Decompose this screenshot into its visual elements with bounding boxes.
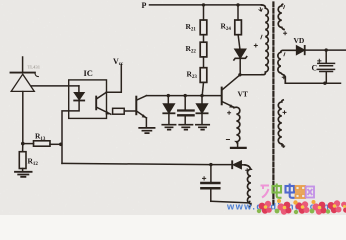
svg-text:VD: VD [294,36,305,45]
resistor R13 left lead [23,143,34,145]
W3 polarity mark - [226,139,229,141]
watermark char 2 (dian) [273,184,282,198]
watermark char 5 (wang) [306,187,314,198]
transistor V1 collector [137,96,147,100]
svg-text:C: C [312,64,318,73]
junction VT collector [238,73,241,76]
transformer core dashed line [272,3,274,207]
transistor V1 base bar [135,97,137,115]
ground (C1) [179,125,192,130]
regulator VR TL431 cathode bar [11,72,35,74]
junction C2 top [209,163,212,166]
junction P/R21 [202,3,205,6]
ground (R12) [15,172,32,177]
resistor R22 body [200,42,207,57]
W3 termination bar [231,147,246,149]
op-to IC optocoupler box [69,80,107,119]
wire collector to Vcc [106,65,121,93]
diode VD2 triangle [234,161,242,168]
diode VD2 cathode bar [231,161,233,168]
regulator VR TL431 reference hook [35,73,38,76]
resistor R21 body [200,20,207,35]
resistor (base drive) body [113,108,125,114]
C2 polarity mark + [203,177,206,180]
wire bottom feedback rail [62,163,232,164]
capacitor C1 upper lead [184,96,186,110]
junction TL431/R13/R12 [21,142,25,146]
wire primary bottom to collector node [240,74,262,76]
transistor V1 emitter [137,111,147,118]
W2c polarity mark + [283,111,286,114]
watermark flower 5 [326,200,342,213]
optocoupler phototransistor collector [96,92,106,99]
optocoupler phototransistor emitter [96,107,110,114]
zener diode VZ triangle [235,49,246,58]
optocoupler LED triangle [75,93,84,100]
diode D1 lower lead [168,113,170,124]
VT emitter arrowhead [229,104,233,108]
winding W4 (aux base winding) [245,165,251,207]
resistor R12 upper lead [22,144,24,152]
junction C1 [184,94,187,97]
capacitor C1 lower lead [184,116,186,124]
optocoupler phototransistor base bar [95,97,97,110]
svg-text:VT: VT [238,90,248,99]
V1 emitter arrowhead [142,114,146,118]
wire R22 to R23 [203,57,205,68]
resistor R24 body [235,20,242,35]
resistor R13 body [34,141,51,146]
resistor R12 lower lead [22,169,24,172]
regulator VR anode lead wire [22,92,24,144]
ground (V1 emitter) [139,128,154,133]
capacitor C upper lead [325,50,327,62]
diode D2 lower lead [201,113,203,124]
svg-text:TL431: TL431 [28,65,41,70]
diode D1 lead [167,96,169,104]
W3 polarity mark + [228,111,231,114]
W2b mark l [284,53,285,56]
transformer T1 primary winding W1 [262,5,269,75]
resistor R23 body [200,68,207,83]
diode D2 triangle [197,104,208,113]
regulator VR TL431 triangle [11,74,34,91]
resistor R24 lead [237,5,239,20]
wire zener to collector node [239,58,241,75]
wire R23 to node [202,82,203,95]
capacitor C1 plates [178,111,193,116]
transistor VT emitter [222,102,235,108]
watermark char 4 (qi) [295,186,306,198]
ground (D2) [196,125,209,130]
diode D1 triangle [164,104,175,113]
W3 termination lead [237,142,239,146]
wire V1 emitter to ground [145,118,147,127]
wire output bottom rail [285,82,340,84]
wire VD to output [306,49,346,51]
transformer secondary winding W2b [278,50,297,83]
watermark flower 1 [257,201,272,214]
junction P/R24 [236,3,239,6]
transformer secondary winding W2a [278,4,284,29]
diode VD triangle [297,46,305,54]
wire C2 bottom to W4 bottom [211,201,250,203]
wire R24 to zener [238,35,240,49]
W1 mark l [261,35,262,39]
node P top rail wire [150,4,262,6]
resistor R12 body [19,152,26,169]
diode VD cathode bar [304,46,306,54]
diode D1 cathode bar [163,112,174,114]
wire resistor to V1 base [124,110,135,112]
svg-text:IC: IC [84,68,93,78]
capacitor C2 lower lead [210,190,212,202]
transistor VT base bar [221,88,223,105]
svg-text:P: P [142,1,147,10]
junction node dots [21,3,328,166]
wire R21 to R22 [203,35,205,43]
emitter arrowhead [105,111,109,114]
W1 current arrow mark [259,8,262,12]
junction R13/LED-return [59,143,63,147]
junction D2/R23 [200,94,203,97]
W2a mark l [284,6,285,9]
watermark flower 3 [293,200,309,214]
junction VD/C [325,48,328,51]
wire TL431 to optocoupler LED [32,85,79,87]
transistor VT collector [222,75,240,90]
ground (D1) [162,125,175,130]
junction D1 [167,94,170,97]
capacitor C plates [318,63,335,71]
diode D2 cathode bar [196,112,207,114]
winding W3 (VT emitter feedback) [234,107,240,143]
W2b polarity mark + [282,76,285,79]
watermark char 3 (dian) [286,184,295,198]
wire V1 collector to VT base [146,95,221,97]
resistor R21 leads [203,5,205,20]
watermark flower 2 [275,199,292,215]
resistor R13 right lead [50,143,61,145]
W1 polarity mark + [254,44,257,47]
diode D2 lead [201,96,203,104]
W2c polarity mark + lower [282,145,285,148]
watermark 广电电器网 logo [226,184,346,215]
junction C bottom [323,82,326,85]
optocoupler LED cathode lead wire [62,101,79,164]
optocoupler LED cathode bar [74,100,84,102]
watermark flower 6 [341,202,346,213]
W2a polarity mark + [284,32,287,35]
W4 polarity mark + [246,169,249,172]
transformer secondary winding W2c [278,100,284,147]
C polarity mark + [318,59,321,62]
zener diode VZ bar [234,57,247,60]
watermark flower 4 [310,200,327,215]
regulator VR TL431 cathode lead [22,57,24,72]
capacitor C lower lead [325,72,327,83]
capacitor C2 plates [201,183,219,188]
watermark char 1 (guang) [261,186,270,198]
optocoupler LED anode lead [78,86,80,93]
capacitor C2 upper lead [210,165,212,182]
diode VD2 anode lead [241,164,245,166]
